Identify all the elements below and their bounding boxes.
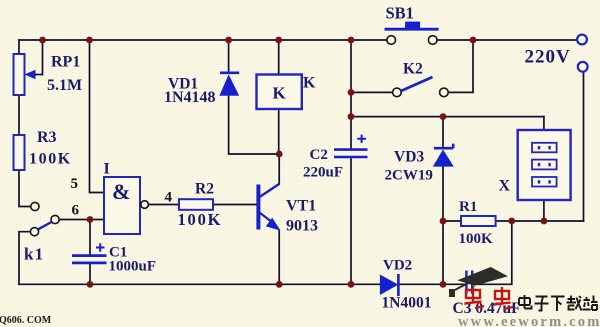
wire: C3 to riser — [473, 221, 512, 284]
node: C1 rail junction — [87, 281, 94, 288]
svg-text:100K: 100K — [29, 151, 72, 168]
svg-text:6: 6 — [72, 203, 80, 219]
wire: top rail left segment — [19, 39, 387, 41]
svg-text:X: X — [499, 178, 511, 195]
svg-text:1N4001: 1N4001 — [382, 295, 432, 312]
switch k1 — [24, 202, 59, 263]
node: rail-K2 junction — [470, 37, 477, 44]
wire: right edge riser to 220V lower terminal — [583, 72, 585, 221]
wire: bottom rail left of VD2 — [19, 283, 380, 285]
node: C2 rail junction — [348, 281, 355, 288]
svg-text:VT1: VT1 — [286, 198, 316, 215]
node: rail-C2 junction — [348, 37, 355, 44]
wire: C2 column lower — [350, 158, 352, 284]
svg-text:1000uF: 1000uF — [109, 259, 157, 275]
capacitor C2 — [303, 135, 368, 181]
svg-text:R1: R1 — [459, 199, 477, 215]
wire: VT1 collector riser — [278, 154, 280, 184]
svg-text:C2: C2 — [310, 147, 328, 163]
node: R1-C3 riser junction — [508, 218, 515, 225]
logo graduation cap — [449, 267, 508, 297]
node: collector junction — [276, 151, 283, 158]
svg-text:RP1: RP1 — [51, 54, 80, 71]
svg-text:5: 5 — [71, 176, 79, 192]
wire: VT1 emitter drop — [278, 231, 280, 285]
wire: K coil bottom lead — [278, 109, 280, 154]
svg-text:2CW19: 2CW19 — [385, 168, 433, 184]
node: rail-pin5 junction — [86, 37, 93, 44]
logo worm character 2 (虫) — [494, 287, 514, 309]
svg-text:9013: 9013 — [286, 218, 318, 235]
svg-text:Q606. COM: Q606. COM — [0, 315, 52, 326]
wire: VD1 bottom lead to node — [229, 96, 280, 154]
svg-text:&: & — [112, 179, 130, 204]
logo text 电 — [519, 295, 532, 309]
wire: X top lead — [543, 117, 545, 130]
svg-text:K: K — [273, 84, 287, 103]
svg-text:VD2: VD2 — [383, 258, 412, 274]
wire: K2 branch left — [351, 91, 393, 93]
wire: VD3 top lead — [442, 117, 444, 148]
svg-text:100K: 100K — [178, 210, 223, 229]
node: K2-left junction — [348, 89, 355, 96]
wire: C1 top lead — [89, 220, 91, 255]
node: VD3-R1 junction — [440, 218, 447, 225]
svg-text:K: K — [303, 75, 316, 92]
diode VD2 — [380, 258, 432, 312]
svg-text:SB1: SB1 — [386, 4, 414, 23]
transistor VT1 — [258, 184, 318, 235]
wire: VD1 top lead — [228, 40, 230, 72]
wire: RP1 to R3 — [18, 95, 20, 135]
wire: top rail right segment — [437, 39, 577, 41]
resistor R3 — [14, 129, 72, 170]
zener diode VD3 — [385, 144, 454, 184]
capacitor C3 — [453, 271, 521, 318]
socket X — [499, 130, 571, 200]
wire: C1 bottom lead — [89, 264, 91, 285]
svg-text:220V: 220V — [525, 47, 571, 68]
resistor R2 — [178, 181, 223, 230]
svg-text:R2: R2 — [195, 181, 214, 198]
wire: bottom-left up to k1 lower contact — [19, 232, 30, 285]
wire: top rail to gate pin 5 — [90, 40, 105, 193]
wire: R3 down to k1 upper contact — [19, 170, 31, 207]
node: rail-wiper junction — [39, 37, 46, 44]
node 6 junction — [87, 216, 94, 223]
wire: mid horizontal bus to X — [351, 116, 544, 118]
svg-text:VD3: VD3 — [394, 149, 424, 166]
wire: gate output to R2 — [149, 204, 180, 206]
logo text 子 — [535, 297, 549, 311]
node: VD3 bus junction — [440, 113, 447, 120]
NAND gate U1 "I" — [71, 161, 173, 235]
logo text 下 — [551, 297, 565, 312]
node: C2 bus junction — [348, 113, 355, 120]
wire: R2 to VT1 base — [213, 204, 257, 206]
svg-text:220uF: 220uF — [303, 165, 343, 181]
wire: R1 right lead to right edge — [496, 220, 584, 222]
push button SB1 — [385, 4, 439, 45]
logo worm character 1 (虫) — [465, 286, 485, 308]
potentiometer RP1 — [14, 54, 83, 96]
logo text 站 — [583, 296, 598, 311]
wire: k1 pole to gate pin 6 — [59, 219, 104, 221]
relay contact K2 — [393, 61, 449, 97]
wire: X bottom lead — [543, 200, 545, 221]
relay coil K — [257, 75, 317, 110]
svg-text:100K: 100K — [459, 231, 494, 247]
logo text 载 — [567, 296, 582, 311]
wire: VD3 bottom lead down to rail — [442, 167, 444, 285]
wire: K2 branch right — [448, 40, 473, 92]
node: X bottom junction — [541, 218, 548, 225]
svg-text:k1: k1 — [24, 245, 44, 264]
capacitor C1 — [72, 243, 156, 274]
resistor R1 — [459, 199, 496, 247]
node: rail-VD1 junction — [225, 37, 232, 44]
node: rail-K junction — [275, 37, 282, 44]
svg-text:1N4148: 1N4148 — [164, 89, 216, 106]
svg-text:I: I — [104, 161, 110, 178]
wire: bottom rail VD2 to C3 — [399, 283, 466, 285]
svg-text:R3: R3 — [37, 129, 57, 146]
node: emitter rail junction — [276, 281, 283, 288]
node: VD2 rail junction — [440, 281, 447, 288]
220V terminals — [525, 35, 588, 72]
wire: R1 left lead — [443, 220, 461, 222]
wire: K coil top lead — [278, 40, 280, 75]
svg-text:5.1M: 5.1M — [47, 77, 82, 94]
wire: RP1 wiper riser — [42, 40, 44, 75]
svg-text:www.eeworm.com: www.eeworm.com — [458, 314, 600, 327]
wire: left column RP1 lead top — [18, 40, 20, 54]
svg-text:K2: K2 — [403, 61, 423, 78]
wire: C2 column upper — [350, 40, 352, 149]
diode VD1 — [164, 73, 239, 106]
svg-text:4: 4 — [165, 190, 173, 206]
